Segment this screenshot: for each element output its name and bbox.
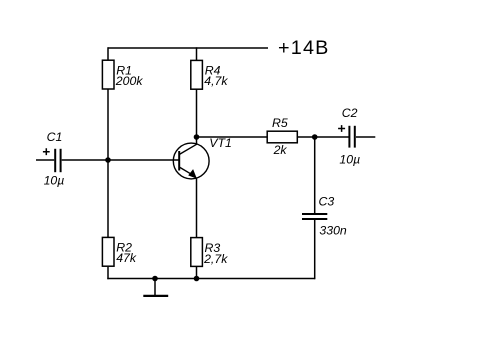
svg-text:2k: 2k bbox=[273, 143, 288, 157]
wire R2 bottom lead bbox=[107, 267, 109, 279]
wire C1 to base node bbox=[62, 159, 109, 161]
svg-text:C1: C1 bbox=[47, 130, 63, 144]
wire R4 bottom lead to collector node bbox=[196, 89, 198, 145]
wire R5 to C3 node bbox=[297, 136, 348, 138]
transistor VT1 bbox=[173, 136, 232, 179]
node base junction bbox=[105, 157, 111, 163]
wire R1 top lead bbox=[107, 47, 109, 60]
ground bbox=[143, 295, 168, 297]
node collector junction bbox=[194, 134, 200, 140]
wire collector node to R5 bbox=[197, 136, 268, 138]
capacitor C3 bbox=[302, 195, 347, 238]
resistor R4 bbox=[191, 60, 229, 89]
wire C3 node down to C3 top plate bbox=[314, 137, 316, 213]
resistor R2 bbox=[102, 237, 136, 266]
node R3 bottom junction bbox=[194, 276, 200, 282]
wire top supply rail bbox=[108, 47, 268, 49]
wire C2 output lead bbox=[356, 136, 375, 138]
wire emitter to R3 bbox=[196, 178, 198, 238]
svg-text:200k: 200k bbox=[115, 74, 144, 88]
wire input left lead bbox=[36, 159, 54, 161]
svg-text:330n: 330n bbox=[319, 224, 347, 238]
svg-text:R5: R5 bbox=[272, 116, 288, 130]
resistor R5 bbox=[267, 116, 297, 157]
resistor R3 bbox=[191, 238, 228, 267]
wire bottom ground rail bbox=[107, 278, 315, 280]
svg-text:C2: C2 bbox=[342, 106, 358, 120]
svg-text:2,7k: 2,7k bbox=[203, 252, 228, 266]
capacitor C1 bbox=[43, 130, 64, 188]
svg-text:+14B: +14B bbox=[278, 37, 330, 59]
svg-text:10µ: 10µ bbox=[44, 174, 65, 188]
svg-text:10µ: 10µ bbox=[339, 152, 360, 166]
svg-text:4,7k: 4,7k bbox=[204, 74, 228, 88]
svg-text:47k: 47k bbox=[116, 251, 137, 265]
node ground junction bbox=[152, 276, 158, 282]
svg-text:C3: C3 bbox=[319, 195, 335, 209]
capacitor C2 bbox=[338, 106, 360, 166]
wire ground stub bbox=[154, 279, 156, 296]
wire R3 bottom lead bbox=[196, 266, 198, 279]
svg-text:VT1: VT1 bbox=[209, 136, 232, 150]
wire base node to transistor base bbox=[108, 159, 179, 161]
resistor R1 bbox=[102, 60, 143, 89]
wire R4 top lead bbox=[196, 47, 198, 60]
wire C3 bottom plate to ground rail bbox=[314, 219, 316, 279]
wire R1 bottom lead to base node bbox=[107, 89, 109, 238]
node output/C3 junction bbox=[312, 134, 318, 140]
